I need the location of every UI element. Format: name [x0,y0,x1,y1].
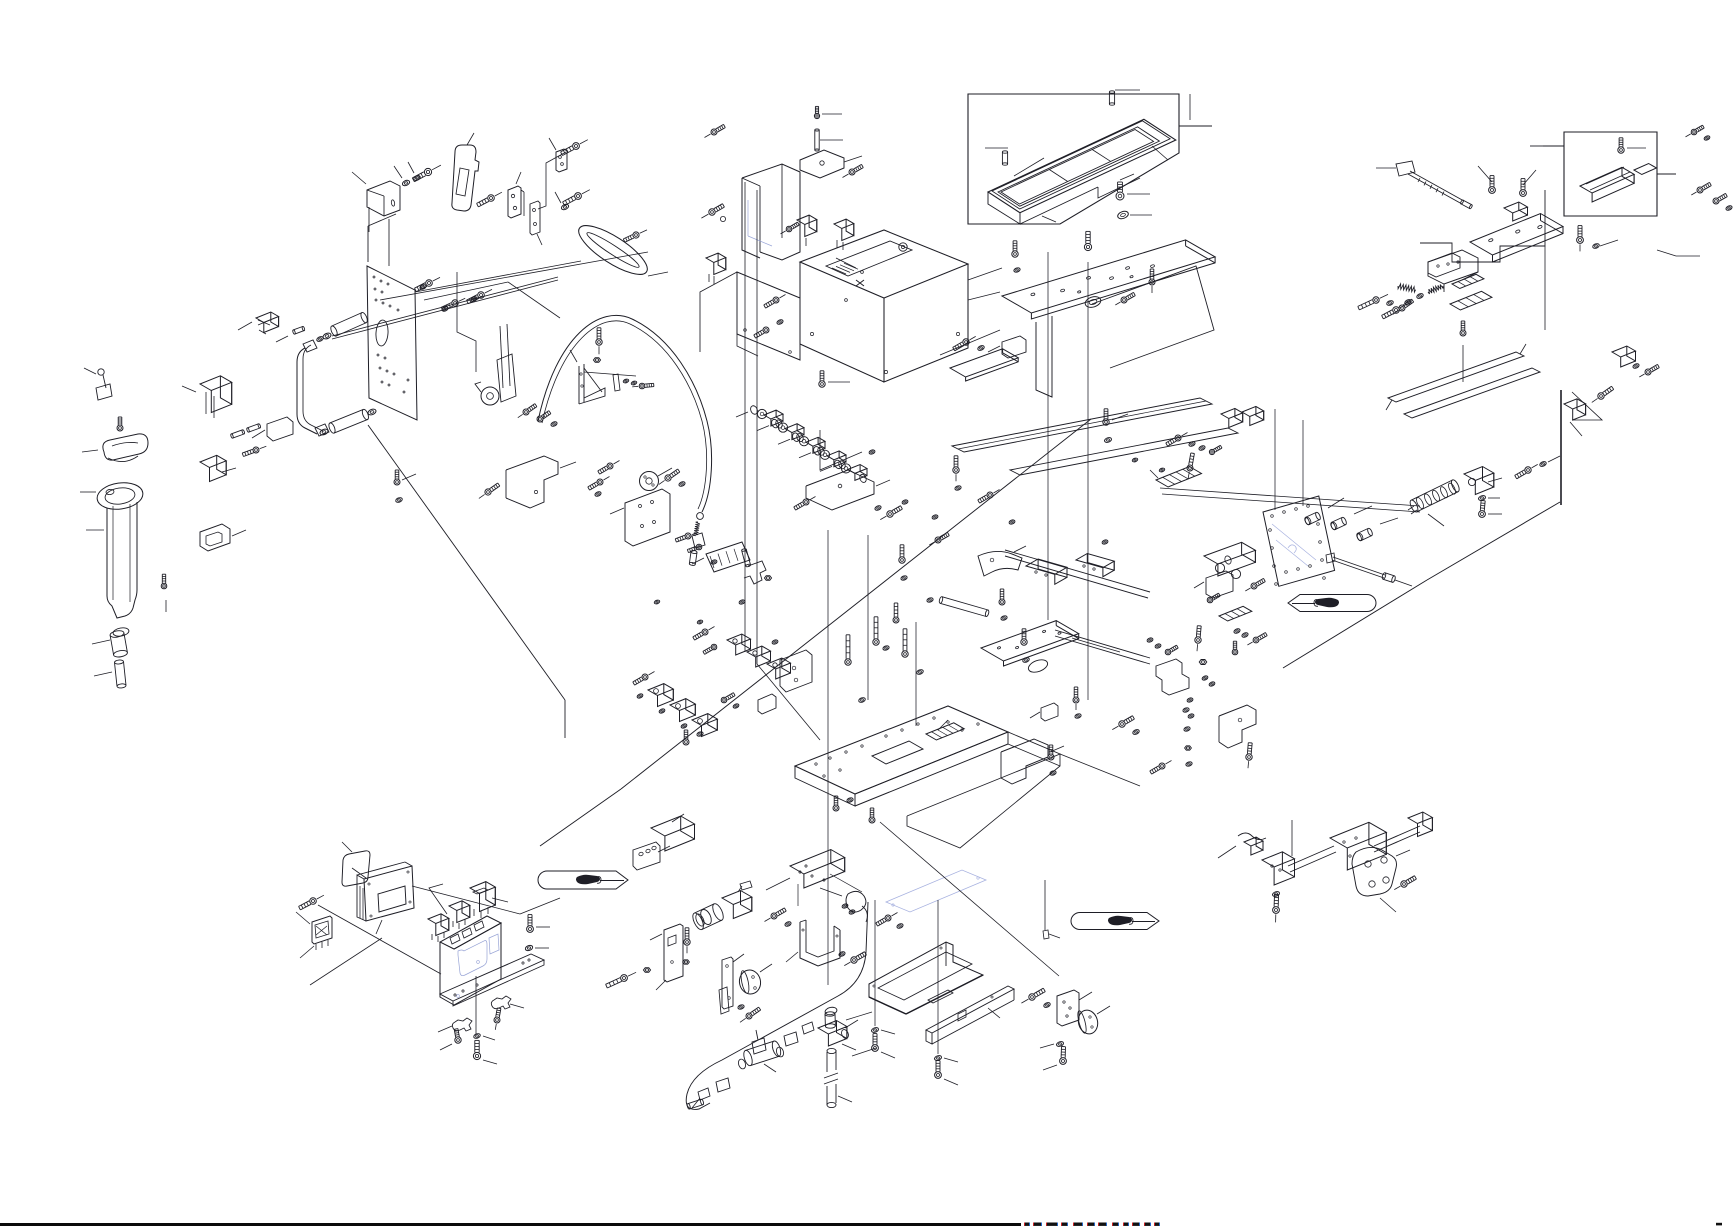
bolt J7e [473,1040,497,1064]
screw below box [819,371,850,387]
fork H5c [744,561,766,584]
leader A4 [368,214,396,262]
screws C extra [754,295,786,339]
leader tri J3d [429,884,447,914]
bracket A14c [252,417,293,441]
detail frame box 2 [1564,132,1657,216]
boundary outline right 2 [1657,173,1676,175]
bolt I10 [1195,626,1207,665]
long diagonal G6 [1283,502,1560,668]
leaders K7 [846,1012,876,1056]
bolt K3b [606,968,651,988]
pipe A13 [297,340,329,436]
bolt L5e [1043,1047,1066,1071]
screw B extra [161,574,167,612]
top plate E1 [1002,240,1215,319]
sensor tip B1 [84,368,112,400]
page footer rule [0,1223,1021,1226]
washer sprinkle 1 [711,559,779,645]
leader long A [380,252,648,300]
bolt TR [1358,294,1388,310]
platform ext [855,732,1060,848]
needle valve right [1326,553,1412,586]
parts G10 [1612,346,1659,377]
washer G3 [1478,495,1500,502]
screw TR3 [1393,299,1414,314]
bracket H4 [806,470,890,510]
slider part in frame [1580,167,1634,202]
detail frame box [968,94,1179,224]
screws A15c [467,289,493,303]
leader J8 [412,886,560,914]
perforated side plate A10 [367,266,417,420]
screw J7b [494,1008,501,1030]
tray leader 2 [1152,146,1168,160]
rod A18c [584,372,654,391]
washers row F12 [1382,285,1444,319]
plate I5 blue accents [1272,524,1316,566]
bracket H17 [978,546,1026,576]
fittings K6d [692,1022,814,1108]
frame 2 leader [1530,145,1564,147]
cube G8 [1564,392,1602,436]
long leader J4c [310,905,441,985]
screws H11 [721,693,739,709]
workpiece tray [988,119,1176,224]
tube B6 [94,660,126,689]
bench box J5 [440,916,501,1005]
screws G5 [1515,456,1560,479]
plate K3 [650,924,683,990]
screw L5c [1021,988,1051,1008]
screws A15b [415,277,441,291]
gauge H8 [640,468,673,491]
bottom sheet [737,272,800,360]
washer below frame [1117,210,1152,220]
hand symbol right [1288,595,1376,612]
frame leader E4 [1189,94,1191,120]
tray pin 2 [1109,90,1140,105]
screws right of platform [1073,687,1082,719]
screw A6b [561,140,588,156]
nut H5d [764,576,771,581]
axle rod A11c [332,277,558,339]
screws mid extra [882,589,1007,651]
disc K4b [737,964,772,996]
rod leader [1376,167,1396,169]
pin H5b [741,548,750,567]
screw A7b [563,190,590,206]
leader TRv [1544,246,1546,330]
leader extra2 [757,664,820,740]
screw C3 [843,164,864,177]
washers I9 [1233,628,1267,645]
long shelf E1h [1010,428,1238,475]
base plate TR [1470,214,1563,263]
screw G9 [1592,386,1614,402]
elbow K2b [820,888,867,922]
screws H6 [675,533,702,553]
screw A1c [412,165,441,182]
screws top-right edge [1691,182,1732,211]
relay cube J3a [428,914,449,942]
tray pin 1 [985,148,1008,165]
nut J7d [473,1033,495,1040]
plate A5 [530,201,542,245]
manifold block K1c [766,850,862,907]
wedge H5 [692,542,750,572]
screws far top-right [1686,125,1711,141]
screw E1d [1084,231,1091,700]
blank plate J1 [342,842,370,886]
roller box I6 [1204,542,1255,578]
relay cube J3b [449,901,470,929]
cable M1 [1218,833,1266,858]
screw L0 [876,913,904,930]
block G2 [1464,467,1502,495]
block A6 [549,138,567,172]
c-bracket H21 [1001,739,1064,784]
u-bracket K5 [786,920,840,966]
sheet E1i [1092,266,1214,368]
label I3 [1150,467,1202,488]
bolt L3b [872,1034,895,1058]
leader A16a [415,261,581,292]
U channel bracket [742,164,800,260]
screw below frame [1116,182,1150,200]
screws H extra [899,456,1000,581]
clip J6b [491,996,524,1009]
washer rows right [1147,637,1179,655]
frame leader tick [1179,125,1212,127]
screw TR4 [1460,321,1466,382]
main diagonal N1 [621,419,1091,789]
washer A1b [408,162,421,181]
screws K5b [838,951,866,966]
c-channel A19b [506,456,576,508]
bracket E1e [988,336,1026,358]
screw J4b [299,895,324,910]
long shelf E1g [952,398,1212,452]
washer I12 [1201,675,1215,687]
pin Q1 [276,326,305,342]
pillar E1b [1036,316,1052,397]
washer L3c [934,1055,958,1062]
mounting plate J5b [440,954,544,1006]
cover strip A2 [452,133,479,211]
blocks I1 [1221,406,1264,427]
cam wheel A16 [475,324,516,405]
bolt C6 [781,222,800,234]
footer text fragment [1024,1223,1160,1226]
hinge pin [815,129,843,151]
washer sprinkle 4 [869,449,1166,472]
screw TR1 [1478,166,1495,193]
control box [800,230,968,382]
disc L5b [1076,1006,1110,1036]
roller A11b [319,408,377,436]
hatch pad TR [1450,291,1492,310]
hand symbol left [538,871,628,889]
gasket blue [886,870,986,912]
motor K2 [691,881,752,931]
main diagonal N2 [540,789,621,846]
leader A16b [369,207,389,266]
u-bracket A20 [200,524,246,551]
screws E2 [1103,409,1128,443]
screws E1f [953,336,985,351]
leader extra1 [1008,744,1140,786]
air valve row [736,405,867,484]
big plate I5 [1263,496,1335,586]
plate H18 [981,621,1079,675]
tip cap B5 [92,627,130,658]
stair A16c [457,272,476,372]
bracket F13 [1428,253,1484,289]
screw C5 [701,204,725,222]
boundary outline right [1420,190,1545,262]
screws E extra [1012,241,1155,305]
washer A1a [394,166,410,187]
box K1 [651,814,695,851]
hand symbol mid [1071,913,1159,930]
washer sprinkle 2 [654,499,909,624]
bracket A1 [352,172,400,216]
bracket L5 [1057,990,1092,1026]
screw I7b [1245,578,1265,591]
tee fitting K6a [818,1006,858,1050]
screw J7a [525,915,550,952]
cable end H3 [689,513,705,566]
boundary N8 [700,272,737,352]
washer TR [1386,300,1394,306]
screws K4c [737,1004,760,1022]
channel L2 [926,986,1014,1044]
screws below platform [833,796,875,823]
cable arc H2 [538,315,712,512]
screws H7b [588,461,620,498]
belt loop A8 [572,217,668,282]
small bracket Q4 [758,694,776,714]
screws H21b [1048,707,1193,776]
thin rail H19 [1055,630,1150,664]
angle bracket A18 [570,350,605,404]
solenoid manifold 1 [693,627,812,693]
adjust rod [1396,161,1464,204]
relay cube J3c [470,882,508,918]
long leader pair right [1160,488,1420,512]
long strips F11 [1386,344,1540,418]
connector C7a [706,253,726,284]
bolt I13b [1246,743,1252,769]
screws H14 [845,617,924,703]
solenoid manifold 2 [633,672,718,746]
plate hole big [1084,295,1102,309]
clamp B2 [82,417,148,462]
screw A19c [479,483,500,498]
screws K2c [765,908,792,927]
flange B3 [80,480,145,512]
screw A19d [659,469,686,487]
screw A4 [477,192,502,207]
clip J6a [438,1018,472,1032]
foot E1c [950,349,1018,381]
box leaders [940,268,1002,355]
top bracket [800,150,862,178]
screws TR right [1577,226,1618,252]
pin row A14b [230,423,261,438]
block M2 [1262,852,1295,923]
bracket H22 [1030,703,1058,721]
washer col I14b [1187,697,1195,719]
barrel B4 [86,502,137,618]
plate leaders I5b [1275,409,1303,510]
leader H14b [868,535,916,726]
screw col A19 [394,470,416,503]
small pad in frame 2 [1634,164,1656,175]
rocker switch J4 [296,912,332,958]
linear rail H15 [1005,550,1150,598]
footer dot [1716,1223,1722,1226]
leader vert N10 [745,182,757,664]
perf plate K1b [633,842,670,870]
ball valve K6c [737,1030,785,1072]
tray leader 1 [1014,158,1044,176]
screw sprinkle 5 [1207,593,1238,655]
washer L3a [871,1027,895,1034]
screw C0 [705,124,726,137]
screws A17 [518,404,558,428]
L-bracket TR [1428,250,1478,292]
box A20b [200,455,236,481]
screw A14d [242,446,266,456]
block TR [1504,202,1528,221]
hose run K6 [686,902,868,1109]
nut A7 [555,192,569,211]
screw K3a [683,928,691,964]
air fittings right [1304,498,1398,542]
spring TR [1398,284,1416,292]
bracket I7 [1194,571,1233,598]
bracket I13 [1219,705,1256,748]
camshaft G1 [1408,479,1461,526]
bolt L3d [935,1061,958,1085]
screw A18a [593,328,602,363]
cylinder M3 [1288,812,1432,872]
block A3 [508,172,524,218]
washer L5d [1040,1041,1064,1048]
screws H20 [1021,629,1140,736]
screw I4 [1187,453,1194,479]
leader M6 [1292,820,1396,912]
vertical thick G7 [1560,390,1562,505]
connector C7c [834,219,854,250]
connector A12 [238,312,279,334]
bezel frame J2 [357,862,414,934]
leader E3 [1047,252,1049,620]
boundary N9 [820,430,862,470]
rod H16 [939,596,990,617]
screw TR2 [1520,170,1536,196]
end plate M4 [1352,847,1410,896]
leader A5 [424,282,560,318]
platform plate [795,706,1008,806]
bolt G4 [1479,501,1502,518]
leader vert A3 [564,700,566,738]
plate H7 [610,489,670,546]
tube K6b [824,1048,852,1107]
label plate H13 [926,720,964,740]
leader L4 [875,822,1060,1054]
zigzag A7c [538,152,566,209]
leader long A2 [368,425,565,700]
z-bracket I11 [1156,659,1189,695]
screw J7c [440,1029,461,1050]
link K4 [719,954,744,1014]
label I8 [1219,606,1252,621]
washer sprinkle 3 [932,514,1109,545]
bucket sheet L1 [869,942,983,1014]
screws H4b [794,497,903,520]
screw A9 [623,230,647,242]
screw above box [814,106,842,118]
roller A11a [316,312,369,343]
rod tip [1460,200,1473,210]
screw in frame 2 [1618,138,1646,153]
screws I2 [1166,433,1222,455]
leader vert N11 [827,530,829,985]
leader J7f [475,976,477,1034]
screw M5 [1394,876,1416,890]
relay box A14 [182,376,232,418]
connector C7b [797,215,817,246]
leader F14 [1657,250,1700,256]
